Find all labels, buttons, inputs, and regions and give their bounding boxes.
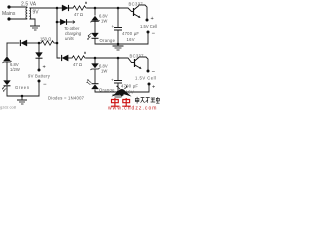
diode D2 to other units <box>60 19 66 25</box>
wire secondary bottom to ground <box>30 19 35 26</box>
wire node A to Q1 base <box>118 8 134 12</box>
terminal cell2 minus <box>147 70 150 73</box>
svg-text:+: + <box>152 85 155 91</box>
LED green D7 <box>2 81 10 92</box>
terminal cell1 minus <box>147 31 150 34</box>
wire battery column <box>38 43 40 52</box>
diode D4 battery <box>36 53 43 59</box>
capacitor C2 <box>114 81 122 84</box>
svg-text:Diodes = 1N4007: Diodes = 1N4007 <box>48 96 85 101</box>
wire mains top <box>9 6 26 8</box>
transistor Q2 BC337 <box>135 57 142 69</box>
node bus 150 <box>56 42 59 45</box>
terminal cell1 plus <box>146 19 149 22</box>
svg-text:+: + <box>43 65 46 71</box>
svg-text:47 Ω: 47 Ω <box>73 62 82 67</box>
diode D1 <box>62 5 69 11</box>
asterisk mark R2 <box>85 2 87 5</box>
svg-text:1.5V Cell: 1.5V Cell <box>140 24 157 29</box>
transistor Q1 BC337 <box>134 6 141 18</box>
watermark site name glyphs <box>135 97 159 104</box>
wire secondary top rail <box>30 7 57 9</box>
wire zener2 column <box>94 58 96 63</box>
ground transformer <box>30 26 40 30</box>
wire branch to other units <box>57 21 61 23</box>
svg-text:1W: 1W <box>101 19 107 24</box>
ground bottom left <box>21 95 24 98</box>
node A dot <box>94 7 97 10</box>
wire cap2 column <box>117 58 119 80</box>
arrow to other units <box>72 21 75 24</box>
svg-text:+: + <box>111 77 114 82</box>
wire mains bottom <box>9 18 26 20</box>
svg-text:4700 µF: 4700 µF <box>122 31 139 36</box>
diode D3 <box>20 40 27 46</box>
svg-text:1.5V Cell: 1.5V Cell <box>135 76 157 81</box>
terminal mains bottom <box>7 17 10 20</box>
asterisk mark R3 <box>84 52 86 55</box>
svg-text:gzdz co8: gzdz co8 <box>0 105 17 110</box>
node bus top <box>56 7 59 10</box>
svg-text:4700 µF: 4700 µF <box>121 84 138 89</box>
wire 150 ohm row <box>7 42 19 44</box>
svg-text:+: + <box>151 16 154 22</box>
watermark chong chong red characters <box>111 98 131 106</box>
svg-text:47 Ω: 47 Ω <box>74 12 83 17</box>
svg-text:−: − <box>152 31 156 37</box>
wire resistor to node A <box>87 7 118 9</box>
capacitor C1 <box>114 28 122 31</box>
wire cap1 column <box>117 8 119 27</box>
zener D8 6.8V 1W <box>91 16 100 22</box>
svg-text:Mains: Mains <box>2 11 16 17</box>
svg-text:units: units <box>65 36 75 41</box>
svg-text:−: − <box>43 82 47 88</box>
node cap1 dot <box>117 7 120 10</box>
wire zener1 column <box>94 8 96 15</box>
svg-text:9V: 9V <box>33 10 40 16</box>
watermark beetle logo <box>112 86 132 97</box>
terminal cell2 plus <box>148 83 151 86</box>
node B dot <box>94 57 97 60</box>
svg-text:1/2W: 1/2W <box>10 67 20 72</box>
svg-text:1W: 1W <box>101 69 107 74</box>
terminal battery plus <box>38 69 41 72</box>
transformer T1 <box>26 7 31 19</box>
zener left D6 <box>3 57 12 64</box>
diode D5 <box>62 55 69 61</box>
wire rail diode1 to resistor <box>57 7 73 9</box>
svg-text:16V: 16V <box>127 37 135 42</box>
svg-text:BC337: BC337 <box>130 53 145 58</box>
zener D10 6.8V 1W <box>91 64 100 71</box>
wire Q2 collector to cell2 <box>140 57 148 71</box>
ground ch1 <box>117 43 120 46</box>
terminal mains top <box>7 5 10 8</box>
node bus branch <box>56 21 59 24</box>
resistor 150 ohm R1 <box>41 41 55 45</box>
wire resistor2 to node B <box>86 57 118 59</box>
LED orange D9 <box>87 33 98 40</box>
ground ch2 <box>117 91 120 94</box>
wire bottom rail diode5 <box>68 57 72 59</box>
node battery junction <box>38 42 41 45</box>
svg-text:2.5 VA: 2.5 VA <box>21 2 37 8</box>
wire left column <box>6 43 8 56</box>
svg-text:+: + <box>112 24 115 29</box>
svg-text:www.cndzz.com: www.cndzz.com <box>108 106 158 111</box>
node cap2 dot <box>117 57 120 60</box>
svg-text:150 Ω: 150 Ω <box>40 36 51 41</box>
wire node B to Q2 base <box>118 58 135 63</box>
svg-text:Orange: Orange <box>100 38 116 43</box>
svg-text:Orange: Orange <box>99 88 115 93</box>
LED orange D11 <box>86 79 98 89</box>
terminal battery minus <box>38 80 41 83</box>
svg-text:BC337: BC337 <box>129 2 144 7</box>
resistor 47ohm R3 <box>72 56 86 60</box>
svg-text:Green: Green <box>15 85 30 90</box>
wire Q1 collector to cell <box>139 5 147 20</box>
resistor 47ohm R2 <box>73 6 87 10</box>
wire bus vertical <box>57 8 60 58</box>
svg-text:9V Battery: 9V Battery <box>28 73 51 78</box>
